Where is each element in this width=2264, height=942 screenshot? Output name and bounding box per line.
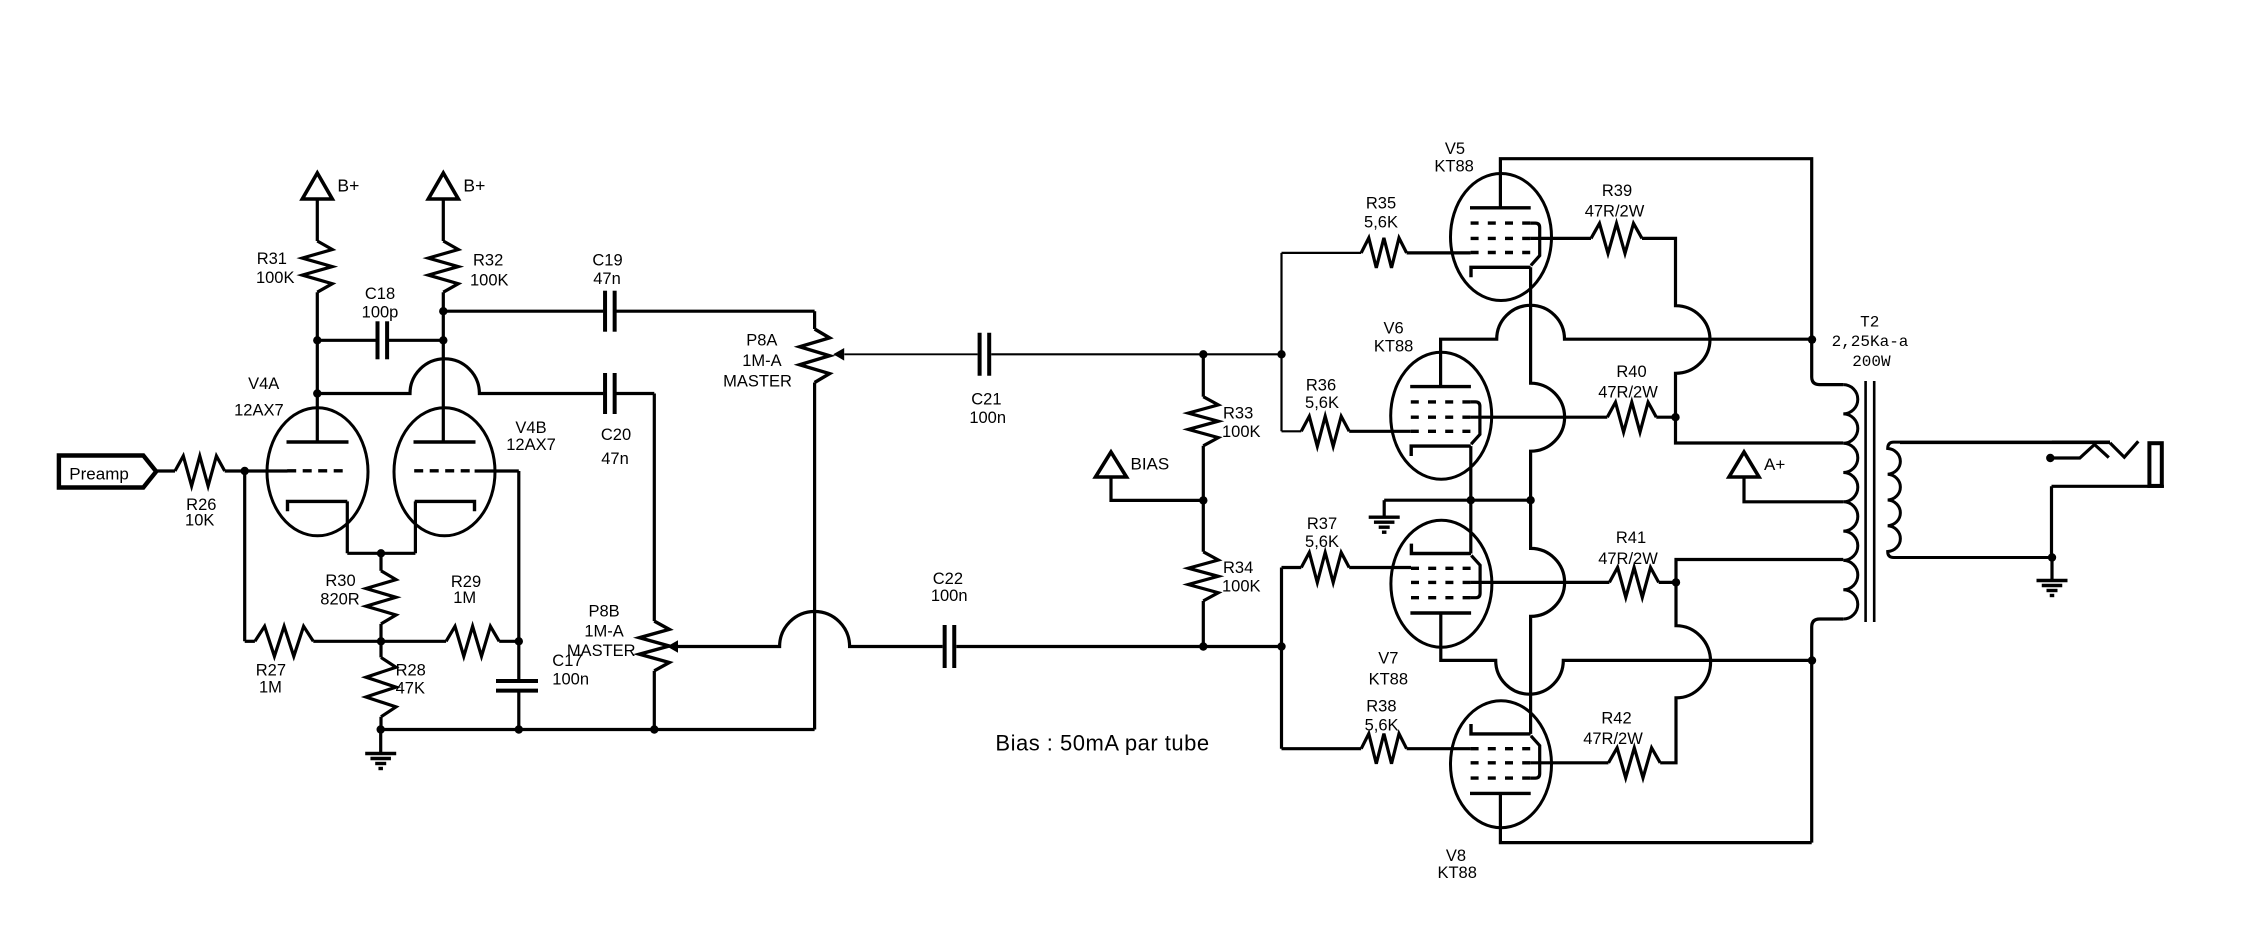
svg-text:Bias : 50mA par tube: Bias : 50mA par tube [995, 731, 1209, 756]
svg-text:100K: 100K [470, 271, 509, 289]
svg-text:12AX7: 12AX7 [234, 402, 284, 420]
svg-text:C20: C20 [601, 426, 631, 444]
svg-text:KT88: KT88 [1434, 157, 1473, 175]
svg-text:R34: R34 [1223, 559, 1253, 577]
svg-text:100n: 100n [969, 409, 1006, 427]
svg-text:R32: R32 [473, 252, 503, 270]
svg-text:1M-A: 1M-A [584, 623, 623, 641]
svg-text:100K: 100K [256, 269, 295, 287]
svg-text:R39: R39 [1602, 182, 1632, 200]
svg-text:100K: 100K [1222, 578, 1261, 596]
svg-text:47R/2W: 47R/2W [1585, 203, 1645, 221]
svg-text:V8: V8 [1446, 847, 1466, 865]
svg-text:47R/2W: 47R/2W [1598, 384, 1658, 402]
svg-text:BIAS: BIAS [1131, 454, 1170, 473]
svg-text:V6: V6 [1384, 320, 1404, 338]
svg-text:200W: 200W [1852, 353, 1891, 371]
svg-text:R40: R40 [1616, 363, 1646, 381]
svg-text:R35: R35 [1366, 195, 1396, 213]
svg-text:5,6K: 5,6K [1305, 394, 1339, 412]
svg-text:R27: R27 [256, 662, 286, 680]
svg-text:47R/2W: 47R/2W [1583, 730, 1643, 748]
svg-text:820R: 820R [320, 591, 360, 609]
svg-text:B+: B+ [463, 176, 485, 196]
svg-text:R42: R42 [1601, 710, 1631, 728]
svg-text:100K: 100K [1222, 423, 1261, 441]
svg-text:2,25Ka-a: 2,25Ka-a [1832, 333, 1909, 351]
svg-text:KT88: KT88 [1374, 338, 1413, 356]
svg-text:R28: R28 [396, 662, 426, 680]
svg-text:R33: R33 [1223, 404, 1253, 422]
svg-text:A+: A+ [1764, 455, 1785, 474]
svg-text:47R/2W: 47R/2W [1598, 550, 1658, 568]
svg-text:C18: C18 [365, 285, 395, 303]
svg-text:KT88: KT88 [1437, 864, 1476, 882]
svg-text:100p: 100p [362, 304, 399, 322]
svg-text:C19: C19 [592, 252, 622, 270]
svg-text:5,6K: 5,6K [1364, 214, 1398, 232]
svg-text:C21: C21 [971, 391, 1001, 409]
svg-text:47K: 47K [396, 680, 425, 698]
svg-text:12AX7: 12AX7 [506, 436, 556, 454]
svg-text:MASTER: MASTER [723, 373, 792, 391]
svg-text:47n: 47n [593, 270, 621, 288]
svg-text:B+: B+ [337, 176, 359, 196]
svg-text:R38: R38 [1366, 698, 1396, 716]
svg-text:P8B: P8B [589, 603, 620, 621]
svg-text:100n: 100n [552, 671, 589, 689]
svg-text:T2: T2 [1860, 314, 1879, 332]
svg-text:V7: V7 [1378, 650, 1398, 668]
svg-text:R41: R41 [1616, 529, 1646, 547]
svg-text:KT88: KT88 [1369, 671, 1408, 689]
svg-text:V5: V5 [1445, 140, 1465, 158]
svg-text:R37: R37 [1307, 515, 1337, 533]
svg-text:R31: R31 [257, 250, 287, 268]
svg-text:MASTER: MASTER [567, 642, 636, 660]
svg-text:V4B: V4B [515, 419, 546, 437]
svg-text:V4A: V4A [248, 375, 279, 393]
svg-text:47n: 47n [601, 450, 629, 468]
svg-text:10K: 10K [185, 512, 214, 530]
svg-text:100n: 100n [931, 587, 968, 605]
svg-text:1M: 1M [259, 679, 282, 697]
svg-text:1M: 1M [453, 589, 476, 607]
svg-text:C22: C22 [933, 570, 963, 588]
svg-text:R30: R30 [325, 572, 355, 590]
svg-text:5,6K: 5,6K [1305, 533, 1339, 551]
svg-text:R36: R36 [1306, 377, 1336, 395]
svg-text:Preamp: Preamp [69, 464, 129, 483]
svg-text:5,6K: 5,6K [1365, 717, 1399, 735]
svg-text:P8A: P8A [746, 332, 777, 350]
svg-text:1M-A: 1M-A [742, 352, 781, 370]
